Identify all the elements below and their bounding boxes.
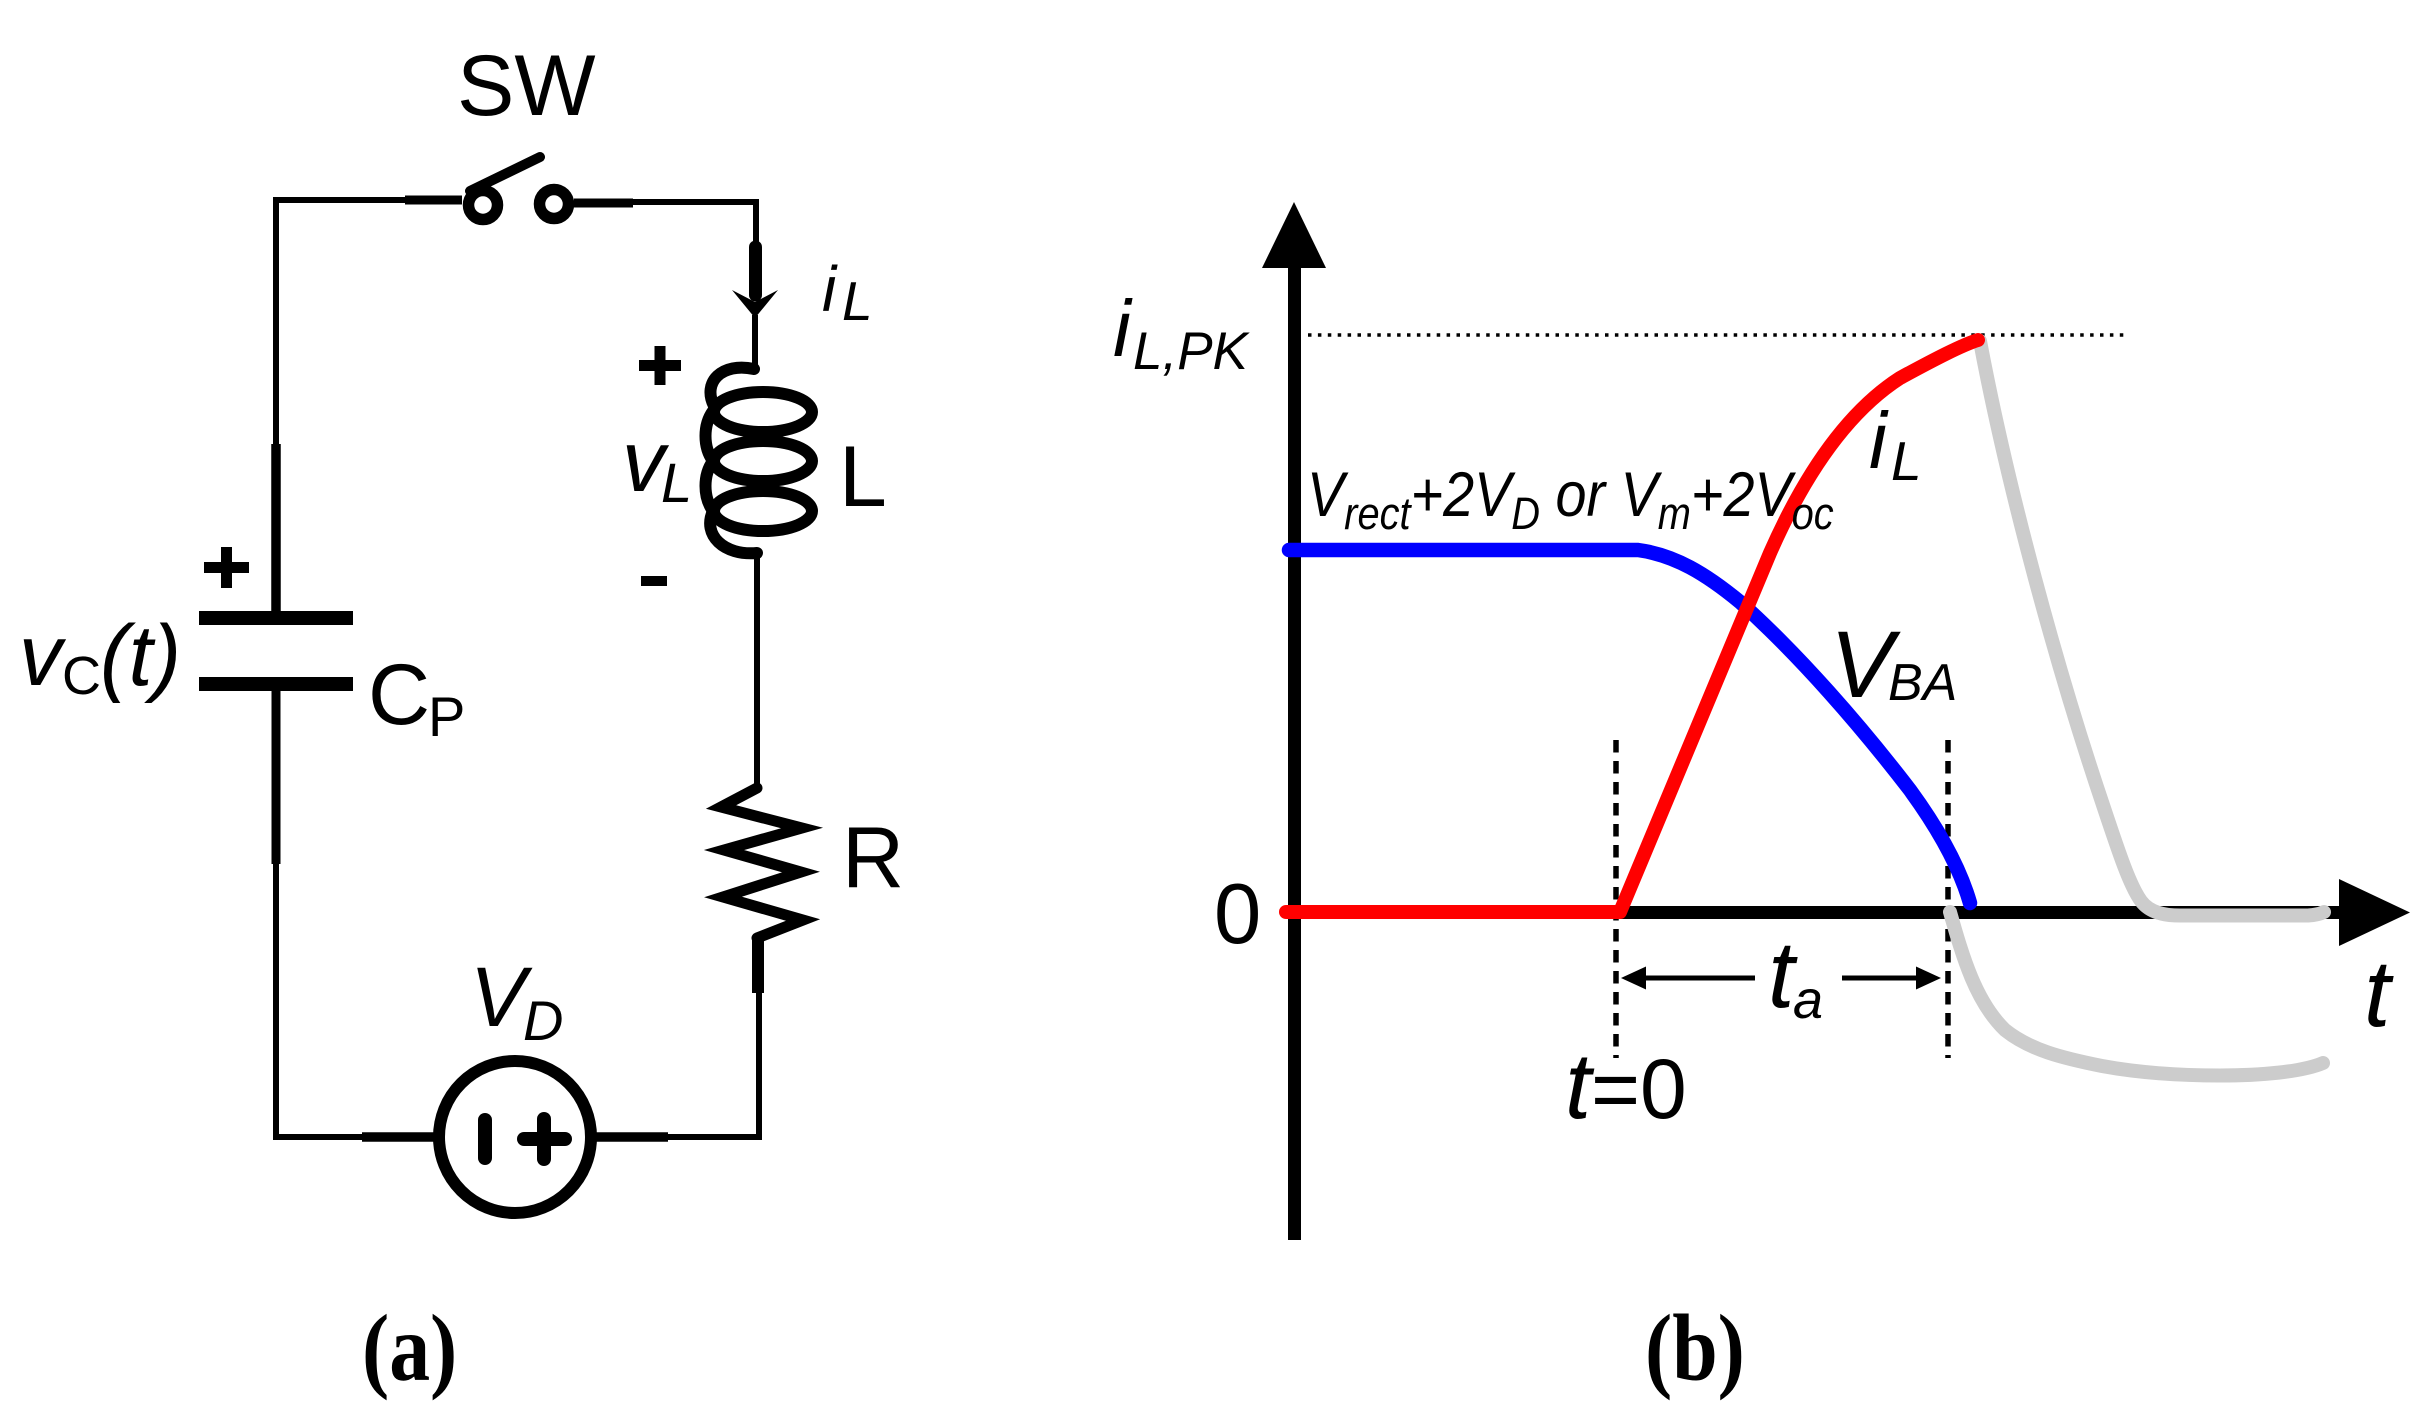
svg-text:0: 0 (1214, 867, 1261, 962)
svg-text:P: P (428, 685, 465, 748)
svg-text:L: L (661, 451, 692, 514)
svg-text:SW: SW (457, 38, 596, 134)
svg-text:C: C (62, 646, 101, 706)
svg-text:i: i (822, 253, 838, 325)
svg-text:=0: =0 (1591, 1042, 1687, 1136)
svg-text:C: C (368, 647, 430, 743)
svg-text:L: L (842, 270, 873, 332)
svg-text:R: R (842, 810, 904, 906)
svg-text:a: a (1793, 970, 1823, 1030)
svg-text:(t): (t) (100, 608, 181, 704)
svg-text:v: v (19, 608, 67, 704)
svg-text:D: D (523, 989, 563, 1052)
svg-text:t: t (2364, 941, 2394, 1047)
svg-text:L,PK: L,PK (1133, 322, 1251, 381)
svg-text:BA: BA (1888, 654, 1957, 712)
svg-text:i: i (1113, 284, 1133, 373)
svg-text:(a): (a) (362, 1296, 457, 1401)
svg-text:i: i (1869, 396, 1889, 485)
svg-text:L: L (839, 429, 887, 525)
svg-text:L: L (1891, 430, 1922, 492)
svg-text:(b): (b) (1645, 1296, 1745, 1401)
